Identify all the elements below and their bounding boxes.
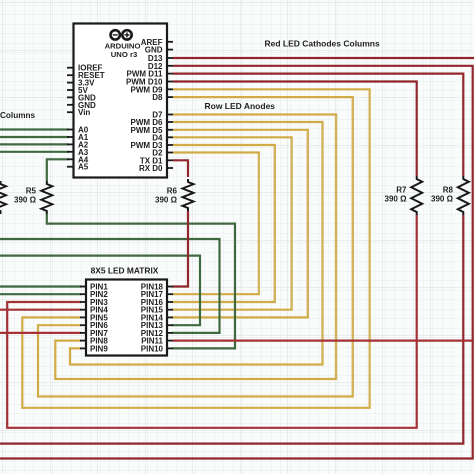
pin A4 (left) xyxy=(67,158,74,160)
pin AREF (right) xyxy=(167,41,173,43)
wire column to PIN12 (green) xyxy=(0,239,220,333)
pin GND (left) xyxy=(67,104,74,106)
svg-text:Vin: Vin xyxy=(78,108,90,117)
svg-text:PIN9: PIN9 xyxy=(90,344,108,353)
pin PWM D6 (right) xyxy=(167,121,173,123)
pin PIN18 (right) xyxy=(167,286,173,288)
wire D10 to R7 (dark red) xyxy=(173,82,417,177)
wire TX D1 to R6 (dark red) xyxy=(173,160,188,177)
pin PWM D11 (right) xyxy=(167,73,173,75)
resistor R7 xyxy=(411,176,422,215)
wire PIN11 row (red) xyxy=(173,340,474,342)
pin IOREF (left) xyxy=(67,67,74,69)
pin D12 (right) xyxy=(167,65,173,67)
pin D7 (right) xyxy=(167,114,173,116)
pin D8 (right) xyxy=(167,96,173,98)
svg-text:R6: R6 xyxy=(167,187,178,196)
pin PWM D5 (right) xyxy=(167,129,173,131)
pin PIN14 (right) xyxy=(167,316,173,318)
wire A0 column (green) xyxy=(0,128,69,130)
wire A1 column (green) xyxy=(0,136,69,138)
pin PIN12 (right) xyxy=(167,332,173,334)
wire R8 to left edge (dark red) xyxy=(0,215,463,444)
svg-text:R5: R5 xyxy=(26,187,37,196)
svg-text:Red LED Cathodes Columns: Red LED Cathodes Columns xyxy=(265,38,381,48)
pin A2 (left) xyxy=(67,143,74,145)
pin RESET (left) xyxy=(67,74,74,76)
pin PWM D10 (right) xyxy=(167,81,173,83)
pin PIN7 (left) xyxy=(80,332,86,334)
pin PIN4 (left) xyxy=(80,309,86,311)
pin GND (left) xyxy=(67,96,74,98)
wire D9 to PIN5 (yellow) xyxy=(22,89,369,408)
pin PWM D9 (right) xyxy=(167,88,173,90)
svg-text:R8: R8 xyxy=(443,186,454,195)
pin RX D0 (right) xyxy=(167,167,173,169)
resistor R-left partial xyxy=(0,181,6,214)
wire vertical yellow column overlays (paler) xyxy=(259,91,370,407)
pin PIN3 (left) xyxy=(80,301,86,303)
pin PIN1 (left) xyxy=(80,286,86,288)
wire D13 row (dark red) xyxy=(173,57,474,59)
svg-text:A5: A5 xyxy=(78,163,89,172)
wire D4 to PIN15 (yellow) xyxy=(172,137,292,309)
Arduino UNO U1 body xyxy=(74,24,168,178)
resistor R6 xyxy=(183,179,194,211)
pin PIN17 (right) xyxy=(167,293,173,295)
8X5 LED MATRIX body xyxy=(86,280,167,356)
pin PIN9 (left) xyxy=(80,347,86,349)
svg-text:390 Ω: 390 Ω xyxy=(431,195,454,204)
wire R7 to PIN3 (red) xyxy=(7,215,417,428)
pin PIN6 (left) xyxy=(80,324,86,326)
svg-text:390 Ω: 390 Ω xyxy=(14,196,37,205)
svg-text:390 Ω: 390 Ω xyxy=(385,195,408,204)
wire A3 column (green) xyxy=(0,151,69,153)
pin PIN2 (left) xyxy=(80,293,86,295)
wire R5 to PIN10 (green) xyxy=(47,214,235,348)
pin PWM D3 (right) xyxy=(167,144,173,146)
svg-text:RX D0: RX D0 xyxy=(139,164,163,173)
pin PIN16 (right) xyxy=(167,301,173,303)
wire PIN1 column (green) xyxy=(0,285,81,287)
pin A1 (left) xyxy=(67,136,74,138)
pin TX D1 (right) xyxy=(167,159,173,161)
wire PIN2 column (green) xyxy=(0,293,81,295)
pin PIN15 (right) xyxy=(167,309,173,311)
pin PIN8 (left) xyxy=(80,340,86,342)
pin D4 (right) xyxy=(167,136,173,138)
wire R6 to PIN18 (dark red) xyxy=(172,211,188,287)
resistor R5 xyxy=(41,181,52,214)
pin PIN11 (right) xyxy=(167,340,173,342)
svg-text:PIN10: PIN10 xyxy=(141,344,164,353)
wire A2 column (green) xyxy=(0,143,69,145)
pin GND (right) xyxy=(167,49,173,51)
resistor R8 xyxy=(458,176,469,215)
Arduino logo xyxy=(111,30,132,39)
wire D3 to PIN16 (yellow) xyxy=(172,145,275,302)
pin 5V (left) xyxy=(67,89,74,91)
pin D2 (right) xyxy=(167,152,173,154)
svg-text:Row LED Anodes: Row LED Anodes xyxy=(205,101,276,111)
pin A5 (left) xyxy=(67,166,74,168)
wire D8 to PIN6 (yellow) xyxy=(38,97,353,396)
wire D5 to PIN14 (yellow) xyxy=(172,130,308,318)
wire D7 to PIN8 (yellow) xyxy=(55,115,336,380)
pin PIN13 (right) xyxy=(167,324,173,326)
pin 3.3V (left) xyxy=(67,82,74,84)
pin PIN5 (left) xyxy=(80,316,86,318)
svg-text:R7: R7 xyxy=(396,186,407,195)
wire A4 to R5 (green) xyxy=(47,159,69,181)
svg-text:D8: D8 xyxy=(152,93,163,102)
svg-text:390 Ω: 390 Ω xyxy=(155,196,178,205)
svg-text:Columns: Columns xyxy=(0,111,35,120)
wire D11 to R8 (dark red) xyxy=(173,74,463,176)
pin A0 (left) xyxy=(67,129,74,131)
wire D6 to PIN9 (yellow) xyxy=(70,122,323,365)
pin D13 (right) xyxy=(167,57,173,59)
pin PIN10 (right) xyxy=(167,347,173,349)
pin Vin (left) xyxy=(67,111,74,113)
pin A3 (left) xyxy=(67,151,74,153)
svg-text:8X5 LED MATRIX: 8X5 LED MATRIX xyxy=(91,266,159,276)
svg-text:UNO r3: UNO r3 xyxy=(111,50,138,59)
wire PIN4 row (red) xyxy=(0,309,81,311)
wire column to PIN13 (green) xyxy=(0,256,200,326)
wire D2 to PIN17 (yellow) xyxy=(172,153,259,295)
wire PIN7 row (red) xyxy=(0,332,81,334)
